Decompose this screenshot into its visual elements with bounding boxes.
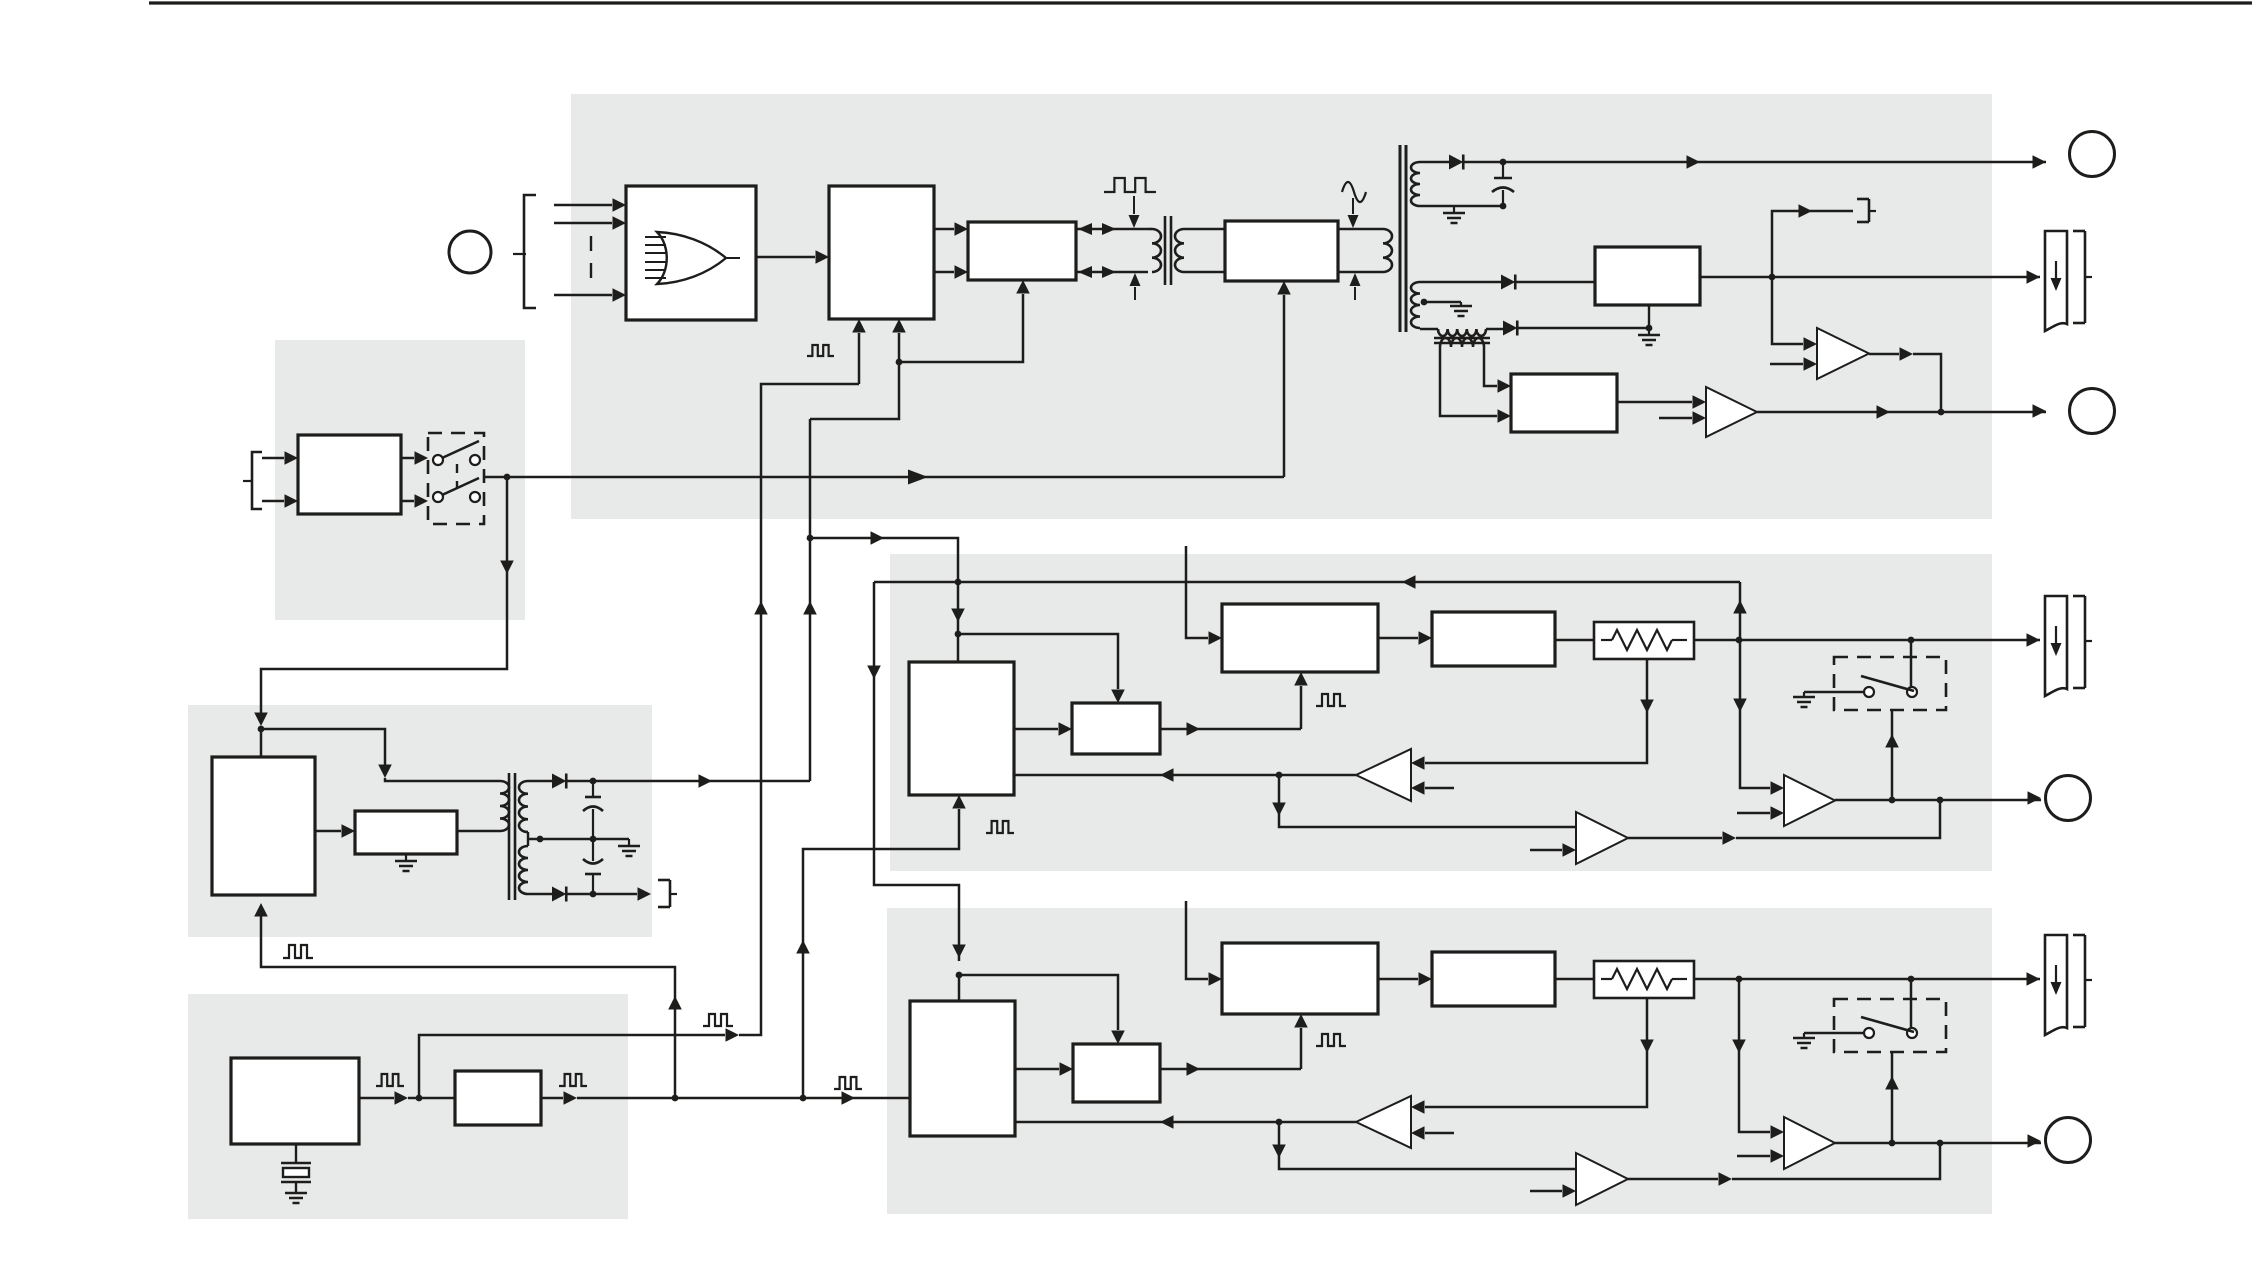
wire U6 to op-amp A1 [1617, 401, 1692, 404]
S1 upper contacts [433, 455, 443, 465]
transformer T4 primary winding [500, 781, 509, 831]
output connector J2 (circle) [2070, 132, 2115, 177]
wire R-network B to output [1694, 978, 2040, 981]
capacitor C2 [592, 781, 594, 797]
transformer T1 core [1164, 216, 1167, 285]
pulse marker channel A [1316, 694, 1346, 706]
node A3 out 1 [1889, 797, 1896, 804]
feedback left riser to channel B [874, 582, 959, 961]
wire D3 to sense node [1517, 327, 1649, 330]
feedback bus channel A [874, 581, 1740, 584]
S1 lower blade [442, 478, 479, 495]
T4 tap wire [528, 838, 629, 841]
riser U15 to U17 bottom [1300, 1028, 1303, 1069]
ground at U9 [405, 854, 407, 861]
input bracket [524, 195, 536, 308]
battery bracket BT3 [2073, 934, 2085, 937]
wire comparator A output to U12 [1014, 774, 1356, 777]
wire to selector lower [262, 500, 284, 503]
switch S2 (dashed box) [1834, 657, 1946, 710]
wire T1 to PWM2 lower [1184, 271, 1225, 274]
wire to aux output bracket [566, 893, 637, 896]
wire oscillator output [359, 1097, 394, 1100]
wire selector to switch lower [401, 500, 414, 503]
wire selector to switch upper [401, 457, 414, 460]
center tap ground wire [1424, 301, 1461, 304]
input connector J1 (circle) [449, 231, 491, 273]
wire PWM1 to T1 lower (bidirectional) [1076, 271, 1148, 274]
buffer op-amp A4 [1576, 812, 1628, 864]
diode D4 [552, 774, 566, 789]
block U16 error amp A [1222, 604, 1378, 672]
resistor network box B [1594, 961, 1694, 998]
transformer T4 secondary winding A [519, 781, 528, 832]
wire rectified output to J2 [1463, 161, 2046, 164]
diode D3 [1503, 321, 1517, 336]
transformer T1 secondary winding [1175, 229, 1184, 272]
resistor network box A [1594, 622, 1694, 659]
transformer T4 secondary winding B [519, 846, 528, 894]
battery bracket BT1 [2073, 230, 2085, 233]
node cap mid [590, 836, 597, 843]
branch channel B to modulator [959, 975, 1118, 1030]
input bracket 2 [252, 452, 262, 509]
transformer T2 secondary winding A [1411, 162, 1420, 206]
branch to T4 primary top [261, 729, 385, 766]
node feedback/top [955, 579, 962, 586]
T3 secondary winding [1440, 338, 1484, 347]
block U13 channel B control [910, 1001, 1015, 1136]
R-network bottom stem A [1425, 659, 1647, 763]
sine waveform marker [1342, 182, 1366, 202]
arrow into driver U2 [898, 333, 901, 362]
wire U12 to U14 [1014, 728, 1058, 731]
wire U18 to R-network [1555, 639, 1594, 642]
transformer T2 primary winding [1383, 229, 1392, 272]
wire input 1 [554, 204, 612, 207]
wire node down to op-amp A2 [1772, 277, 1803, 344]
op-amp A2 [1817, 328, 1869, 379]
op-amp A1 [1706, 387, 1757, 437]
main bus node [504, 474, 511, 481]
wire A3 output to J4 [1835, 799, 2041, 802]
block U9 aux driver [355, 811, 457, 854]
battery connector symbol BT2 [2045, 596, 2067, 696]
wire R-network to output A [1694, 639, 2040, 642]
transformer T1 primary winding [1148, 228, 1152, 231]
output connector J4 (circle) [2046, 776, 2091, 821]
wire feedback into U12 top [957, 582, 960, 662]
block U17 error amp B [1222, 943, 1378, 1014]
S3 contacts [1864, 1028, 1874, 1038]
wire PWM2 to T2 upper [1338, 228, 1383, 231]
OR gate symbol [657, 232, 726, 284]
aux node [258, 726, 265, 733]
S2 control stem [1891, 710, 1894, 800]
termination bracket [1857, 198, 1869, 201]
wire driver to PWM1 lower [934, 271, 954, 274]
branch to modulator A [958, 634, 1118, 689]
node C1 bottom [1500, 203, 1507, 210]
wire T3 secondary left lead [1440, 347, 1497, 416]
gray panel: oscillator section [188, 994, 628, 1219]
dashed continuation marks [590, 236, 592, 280]
diode D2 [1501, 275, 1515, 290]
wire T3 secondary right lead [1484, 347, 1497, 386]
S3 ground tap [1804, 1032, 1864, 1035]
feedback tap riser A [1739, 582, 1742, 640]
comparator A lower stub [1425, 787, 1454, 790]
ground at secondary A [1453, 206, 1455, 213]
wire driver to PWM1 upper [934, 228, 954, 231]
wire U8 to aux driver [315, 830, 341, 833]
node channel B top [956, 972, 963, 979]
branch comparator A to buffer [1278, 775, 1281, 816]
wire into U13 top [958, 975, 961, 1001]
S3 blade [1861, 1017, 1914, 1032]
op-amp B3 lower stub [1737, 1155, 1770, 1158]
node R output B2 [1908, 976, 1915, 983]
transformer T2 core [1399, 145, 1402, 332]
node A3 out 2 [1937, 797, 1944, 804]
ground at tap [628, 839, 630, 846]
wire D2 to regulator block [1515, 281, 1595, 284]
aux feedback riser from osc bus [261, 912, 675, 1098]
capacitor C3 [583, 859, 603, 864]
wire U17 to U19 [1378, 978, 1418, 981]
wire divider output bus [541, 1097, 563, 1100]
S2 blade [1861, 676, 1914, 691]
block U4 PWM2 [1225, 221, 1338, 281]
op-amp A4 lower stub [1530, 849, 1562, 852]
pulse marker near driver feed [807, 345, 834, 356]
wire input 2 [554, 222, 612, 225]
block U5 regulator [1595, 247, 1700, 305]
stub input to U17 [1186, 901, 1208, 979]
gray panel: auxiliary supply section [188, 705, 652, 937]
block U6 current sense amp [1511, 374, 1617, 432]
diode D1 [1449, 155, 1463, 170]
transformer T4 core [508, 773, 511, 900]
block U12 channel A control [909, 662, 1014, 795]
wire input 3 [554, 294, 612, 297]
capacitor C1 [1502, 162, 1504, 178]
wire secondary A bottom [1420, 205, 1503, 208]
block U18 channel A [1432, 612, 1555, 666]
resistor zigzag A [1601, 639, 1612, 641]
node cap bottom [590, 891, 597, 898]
connector tick [513, 253, 526, 255]
block U14 modulator A [1072, 703, 1160, 754]
wire U19 to R-network B [1555, 978, 1594, 981]
wire secondary B bottom to T3 [1420, 328, 1438, 331]
buffer op-amp B4 [1576, 1153, 1628, 1205]
wire secondary A to diode D4 [528, 780, 552, 783]
tap node [537, 836, 544, 843]
wire A2 output joins A1 output [1869, 353, 1899, 356]
center tap node [1421, 299, 1428, 306]
op-amp A2 lower input stub [1770, 363, 1803, 366]
measure arrow down to T1 upper [1133, 196, 1135, 214]
bus branch down to aux supply [261, 477, 507, 715]
wire secondary A top to diode D1 [1420, 161, 1449, 164]
S1 upper blade [442, 441, 479, 458]
measure arrow up to T2 lower [1354, 287, 1356, 300]
node B3 out 2 [1937, 1140, 1944, 1147]
block U1 input logic (OR gate box) [626, 186, 756, 320]
wire PWM1 to T1 upper (bidirectional) [1076, 228, 1148, 231]
node after D1 [1500, 159, 1507, 166]
op-amp B3 [1784, 1117, 1835, 1169]
top rule [149, 1, 2252, 4]
block U2 driver [829, 186, 934, 319]
block U3 PWM1 [968, 222, 1076, 280]
current transformer T3 primary winding [1438, 329, 1486, 336]
comparator A (left facing) [1356, 749, 1411, 801]
wire B3 output to J5 [1835, 1142, 2041, 1145]
wire A1 output to J3 [1757, 411, 2046, 414]
wire U16 to U18 [1378, 637, 1418, 640]
S1 dashed link [456, 464, 458, 488]
wire region1 bus to channel A control [810, 537, 944, 540]
wire secondary B to diode D5 [528, 893, 552, 896]
pulse waveform marker [1104, 178, 1156, 192]
switch S3 (dashed box) [1834, 999, 1946, 1052]
transformer T2 secondary winding B [1411, 282, 1420, 328]
node divider bus 2 [672, 1095, 679, 1102]
block U8 aux control [212, 757, 315, 895]
S2 feed from R output [1910, 640, 1913, 687]
node region1 bus [807, 535, 814, 542]
wire U5 output to battery symbol [1700, 276, 2040, 279]
op-amp B4 lower stub [1530, 1190, 1562, 1193]
measure arrow down to T2 upper [1352, 198, 1354, 214]
output connector J5 (circle) [2046, 1118, 2091, 1163]
ground at sense node [1648, 328, 1650, 335]
osc branch up to region1 [419, 1035, 725, 1098]
op-amp A1 lower input stub [1659, 417, 1692, 420]
block U11 divider [455, 1071, 541, 1125]
diode D5 [552, 887, 566, 902]
node A1/A2 outputs join [1938, 409, 1945, 416]
S3 feed from R output [1910, 979, 1913, 1028]
wire node down to op-amp B3 [1739, 979, 1770, 1132]
node comparator B output [1276, 1119, 1283, 1126]
pulse marker on aux feedback [283, 945, 313, 958]
S3 control stem [1891, 1052, 1894, 1143]
stub input to U16 [1186, 546, 1208, 638]
main bus from S1 [484, 476, 507, 479]
main bus riser into PWM2 [1283, 295, 1286, 477]
pulse marker after divider [559, 1074, 587, 1086]
op-amp A3 [1784, 775, 1835, 826]
comparator B lower stub [1425, 1132, 1454, 1135]
node R output A2 [1908, 637, 1915, 644]
T4 winding link [527, 832, 529, 846]
branch comparator B to buffer [1278, 1122, 1281, 1158]
jog to driver inputs [810, 362, 899, 419]
wire U9 to T4 primary bottom [457, 830, 497, 833]
riser U14 to U16 bottom [1300, 686, 1303, 729]
resistor zigzag B [1601, 978, 1612, 980]
battery connector symbol BT1 [2045, 231, 2067, 331]
block U19 channel B [1432, 952, 1555, 1006]
gray panel: channel B regulator section [887, 908, 1992, 1214]
wire aux rail to region1 [566, 780, 810, 783]
wire B4 output joins B3 [1628, 1178, 1718, 1181]
battery bracket BT2 [2073, 595, 2085, 598]
riser from aux rail [809, 419, 812, 781]
pulse marker on osc bus [703, 1014, 733, 1026]
wire T3 to diode D3 [1486, 328, 1503, 331]
wire PWM2 to T2 lower [1338, 271, 1383, 274]
wire T1 to PWM2 upper [1184, 228, 1225, 231]
wire node to aux control block [260, 729, 263, 757]
pulse marker before channel B [834, 1077, 862, 1089]
node modulator branch A [955, 631, 962, 638]
wire comparator B output to U13 [1015, 1121, 1356, 1124]
node driver feed [896, 359, 903, 366]
pulse marker osc [376, 1074, 404, 1086]
S2 contacts [1864, 687, 1874, 697]
wire A4 output joins A3 [1628, 837, 1722, 840]
node R output A1 [1736, 637, 1743, 644]
node aux rail [590, 778, 597, 785]
wire node down to op-amp A3 [1740, 640, 1770, 788]
aux termination bracket [658, 879, 670, 882]
pulse marker channel B [1316, 1034, 1346, 1046]
wire OR gate to driver block [756, 256, 815, 259]
block U15 modulator B [1073, 1044, 1160, 1102]
wire secondary B top to diode D2 [1420, 281, 1501, 284]
wire U13 to U15 [1015, 1068, 1059, 1071]
wire U15 output [1160, 1068, 1301, 1071]
wire U14 output [1160, 728, 1301, 731]
branch to PWM1 bottom [899, 294, 1023, 362]
switch S1 (dashed box) [428, 433, 484, 524]
block U10 oscillator [231, 1058, 359, 1144]
node R output B1 [1736, 976, 1743, 983]
op-amp A3 lower stub [1737, 812, 1770, 815]
wire to selector upper [262, 457, 284, 460]
gray panel: input select section [275, 340, 525, 620]
main bus wire to PWM2 [507, 476, 1284, 479]
riser divider bus to region5 [803, 809, 959, 1098]
S2 ground tap [1804, 691, 1864, 694]
T3 core [1434, 337, 1490, 340]
pulse marker near U12 bottom [986, 821, 1014, 833]
block U7 input selector [298, 435, 401, 514]
measure arrow up to T1 lower [1134, 287, 1136, 300]
gray panel: channel A regulator section [890, 554, 1992, 871]
S1 lower contacts [433, 492, 443, 502]
battery connector symbol BT3 [2045, 935, 2067, 1035]
node comparator A output [1276, 772, 1283, 779]
node osc output [416, 1095, 423, 1102]
node divider bus 3 [800, 1095, 807, 1102]
gray panel: gate drive / main converter section [571, 94, 1992, 519]
sense node [1646, 325, 1653, 332]
R-network bottom stem B [1425, 998, 1647, 1107]
node U5 output [1769, 274, 1776, 281]
comparator B (left facing) [1356, 1096, 1411, 1148]
node B3 out 1 [1889, 1140, 1896, 1147]
wire node up to termination [1772, 211, 1853, 277]
crystal Y1 [295, 1144, 297, 1162]
up arrow marker on osc riser [754, 601, 768, 615]
block U5 regulator stem [1648, 305, 1650, 328]
output connector J3 (circle) [2070, 389, 2115, 434]
